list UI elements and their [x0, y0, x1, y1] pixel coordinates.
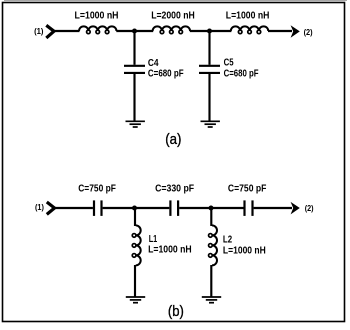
wire node B down to C5: [208, 31, 210, 65]
svg-text:(2): (2): [304, 27, 313, 37]
wire C4 to ground: [133, 74, 135, 121]
inductor L=1000 nH (first, circuit a): [79, 26, 116, 31]
svg-text:(2): (2): [305, 203, 314, 213]
svg-text:(a): (a): [165, 131, 181, 148]
capacitor C=750 pF (first, circuit b) right plate: [100, 200, 102, 216]
ground symbol under C4: [126, 120, 145, 122]
wire third inductor to output arrow: [268, 30, 292, 32]
inductor L1 (shunt, circuit b): [136, 225, 141, 265]
svg-text:(1): (1): [35, 202, 44, 212]
svg-text:(1): (1): [34, 26, 44, 36]
capacitor C4 top plate: [124, 65, 145, 67]
wire L2 to ground: [210, 265, 212, 297]
capacitor C4 bottom plate: [124, 72, 145, 74]
inductor L=1000 nH (third, circuit a): [231, 26, 268, 31]
output arrowhead circuit b: [291, 202, 300, 215]
svg-text:C4: C4: [148, 58, 159, 69]
input connector chevron circuit b: [47, 202, 55, 214]
wire node D down to L2: [210, 208, 212, 226]
svg-text:C=750 pF: C=750 pF: [228, 184, 267, 195]
inductor L2 (shunt, circuit b): [212, 225, 217, 265]
wire node A down to C4: [133, 31, 135, 65]
capacitor C=330 pF (middle, circuit b) right plate: [177, 200, 179, 216]
wire first capacitor to node C: [103, 207, 170, 209]
wire middle inductor to node B: [190, 30, 232, 32]
ground symbol under C5: [201, 120, 220, 122]
capacitor C=750 pF (first, circuit b) left plate: [93, 200, 95, 216]
svg-text:C=750 pF: C=750 pF: [78, 184, 116, 195]
ground symbol under L1: [126, 296, 145, 298]
wire input to first capacitor (b): [55, 207, 93, 209]
capacitor C=750 pF (third, circuit b) right plate: [251, 200, 253, 216]
svg-text:L=1000 nH: L=1000 nH: [223, 245, 266, 256]
output arrowhead circuit a: [291, 25, 300, 38]
svg-text:L=2000 nH: L=2000 nH: [151, 11, 195, 22]
node A junction dot: [132, 29, 137, 34]
node D junction dot: [209, 206, 214, 211]
inductor L=2000 nH (middle, circuit a): [153, 26, 190, 31]
svg-text:L=1000 nH: L=1000 nH: [75, 11, 119, 22]
svg-text:(b): (b): [168, 303, 184, 320]
svg-text:C5: C5: [224, 58, 234, 69]
capacitor C5 bottom plate: [199, 72, 220, 74]
svg-text:C=680 pF: C=680 pF: [224, 69, 259, 80]
wire middle capacitor to node D: [179, 207, 243, 209]
input connector chevron circuit a: [46, 25, 54, 38]
scan artifact line at top edge: [4, 0, 347, 2]
node C junction dot: [132, 206, 137, 211]
wire input to first inductor: [54, 30, 80, 32]
wire node C down to L1: [134, 208, 136, 226]
wire C5 to ground: [208, 74, 210, 121]
ground symbol under L2: [202, 296, 221, 298]
node B junction dot: [207, 29, 212, 34]
svg-text:L=1000 nH: L=1000 nH: [226, 11, 270, 22]
capacitor C=750 pF (third, circuit b) left plate: [243, 200, 245, 216]
svg-text:L1: L1: [149, 234, 158, 245]
svg-text:L=1000 nH: L=1000 nH: [148, 245, 192, 256]
svg-text:L2: L2: [223, 234, 233, 245]
capacitor C=330 pF (middle, circuit b) left plate: [169, 200, 171, 216]
wire third capacitor to output arrow: [254, 207, 292, 209]
wire first inductor to node A: [116, 30, 153, 32]
svg-text:C=330 pF: C=330 pF: [155, 184, 194, 195]
capacitor C5 top plate: [199, 65, 220, 67]
svg-text:C=680 pF: C=680 pF: [148, 69, 184, 80]
wire L1 to ground: [134, 265, 136, 297]
